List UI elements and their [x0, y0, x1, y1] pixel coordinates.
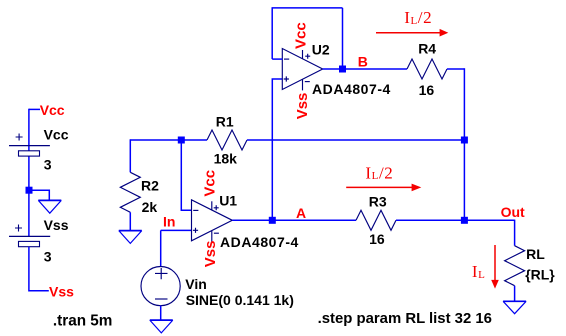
svg-text:R2: R2 [141, 178, 159, 194]
svg-text:ADA4807-4: ADA4807-4 [312, 81, 391, 97]
svg-text:ADA4807-4: ADA4807-4 [220, 234, 299, 250]
resistor R4 [407, 59, 447, 79]
wire [28, 146, 30, 191]
wire [447, 68, 464, 70]
current arrow IL (load) [491, 245, 499, 289]
wire [272, 219, 356, 221]
wire [343, 68, 408, 70]
svg-text:Vcc: Vcc [44, 127, 69, 143]
svg-text:Vcc: Vcc [293, 22, 310, 49]
svg-text:18k: 18k [214, 151, 238, 167]
junction [461, 137, 468, 144]
svg-text:.step param RL list 32 16: .step param RL list 32 16 [318, 311, 492, 327]
resistor R3 [356, 210, 396, 230]
voltage source Vin [141, 267, 180, 306]
wire [160, 306, 162, 320]
wire [28, 109, 30, 146]
wire [161, 229, 192, 231]
svg-text:16: 16 [419, 82, 435, 98]
op-amp U1 ADA4807-4 [192, 200, 233, 242]
current arrow IL/2 (row B) [376, 29, 448, 37]
svg-text:R3: R3 [369, 194, 387, 210]
svg-text:{RL}: {RL} [525, 267, 555, 283]
svg-text:16: 16 [369, 231, 385, 247]
wire [342, 8, 344, 69]
svg-text:Vin: Vin [185, 276, 207, 292]
wire [514, 286, 516, 302]
ground [150, 320, 173, 333]
svg-text:A: A [296, 205, 306, 221]
svg-text:Vss: Vss [44, 217, 69, 233]
svg-text:Vcc: Vcc [40, 102, 65, 118]
svg-text:R1: R1 [216, 113, 234, 129]
svg-text:.tran 5m: .tran 5m [53, 312, 113, 329]
svg-text:B: B [358, 53, 368, 69]
svg-text:Vss: Vss [294, 93, 311, 120]
voltage source V2 Vss [9, 225, 50, 247]
svg-text:Vss: Vss [49, 283, 74, 299]
voltage source V1 Vcc [9, 134, 50, 157]
wire [129, 212, 131, 230]
wire [271, 8, 273, 59]
wire [129, 139, 131, 172]
svg-text:2k: 2k [142, 199, 158, 215]
junction node B [339, 66, 346, 73]
svg-text:3: 3 [44, 249, 52, 265]
wire [160, 230, 162, 266]
svg-text:Vss: Vss [202, 240, 219, 267]
wire [181, 140, 191, 210]
wire [396, 219, 464, 221]
wire [29, 247, 49, 291]
wire (right rail) [463, 68, 465, 220]
wire [514, 220, 516, 246]
junction [178, 137, 185, 144]
wire (U2 feedback) [272, 58, 282, 60]
wire [28, 190, 30, 236]
ground [38, 200, 61, 213]
wire [29, 190, 49, 200]
svg-text:RL: RL [526, 246, 545, 262]
svg-text:R4: R4 [418, 41, 436, 57]
junction [461, 217, 468, 224]
wire [272, 7, 343, 9]
svg-text:U1: U1 [219, 193, 237, 209]
junction node A [269, 217, 276, 224]
svg-text:Vcc: Vcc [201, 170, 218, 197]
wire [247, 139, 464, 141]
resistor R2 [120, 172, 140, 212]
wire [272, 79, 282, 220]
wire [130, 139, 207, 141]
resistor RL [505, 246, 525, 286]
power flag Vcc (left top) [29, 102, 65, 118]
svg-text:SINE(0 0.141 1k): SINE(0 0.141 1k) [186, 292, 294, 308]
svg-text:IL/2: IL/2 [365, 163, 393, 182]
svg-text:In: In [163, 213, 175, 229]
wire [232, 219, 272, 221]
svg-text:IL/2: IL/2 [404, 8, 432, 27]
wire [323, 68, 343, 70]
wire (out row) [464, 219, 514, 221]
junction [26, 187, 33, 194]
ground [119, 231, 142, 244]
ground [503, 301, 526, 313]
op-amp U2 ADA4807-4 [282, 49, 322, 91]
svg-text:3: 3 [44, 156, 52, 172]
svg-text:U2: U2 [312, 42, 330, 58]
current arrow IL/2 (row A) [346, 184, 421, 192]
svg-text:IL: IL [472, 262, 486, 281]
svg-text:Out: Out [501, 204, 525, 220]
resistor R1 [207, 130, 247, 150]
